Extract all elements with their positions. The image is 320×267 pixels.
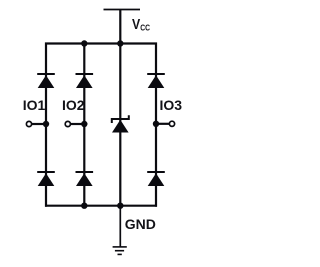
wire ground stem (119, 206, 121, 247)
svg-text:IO2: IO2 (62, 97, 85, 113)
ground (113, 247, 127, 255)
diode D2 top (IO2 to Vcc) (76, 74, 94, 88)
wire bottom rail (45, 205, 157, 207)
svg-text:VCC: VCC (132, 16, 150, 33)
diode D4 bottom (GND to IO1) (37, 172, 55, 186)
node IO3 (153, 121, 159, 127)
zener diode Z1 (Vcc clamp) (112, 115, 129, 132)
terminal pin IO1 (26, 121, 31, 126)
wire Vcc stem (119, 10, 121, 45)
wire IO3 lead (156, 123, 169, 125)
terminal pin IO3 (169, 121, 174, 126)
wire IO2 lead (70, 123, 84, 125)
wire top rail (46, 44, 156, 207)
svg-text:IO3: IO3 (160, 97, 183, 113)
diode D6 bottom (GND to IO3) (147, 172, 165, 186)
svg-text:GND: GND (125, 216, 156, 232)
Vcc supply bar (104, 9, 141, 11)
diode D5 bottom (GND to IO2) (76, 172, 94, 186)
node IO1 (43, 121, 49, 127)
node junction bottom rail at IO2 column (81, 203, 87, 209)
diode D3 top (IO3 to Vcc) (147, 74, 165, 88)
node junction bottom rail at GND stem (117, 203, 123, 209)
node IO2 (81, 121, 87, 127)
wire IO1 lead (32, 123, 47, 125)
wire column zener (119, 44, 121, 206)
diode D1 top (IO1 to Vcc) (37, 74, 55, 88)
terminal pin IO2 (65, 121, 70, 126)
wire column IO2 (83, 44, 85, 206)
node junction top rail at Vcc stem (117, 40, 123, 46)
node junction top rail at IO2 column (81, 40, 87, 46)
svg-text:IO1: IO1 (23, 97, 46, 113)
